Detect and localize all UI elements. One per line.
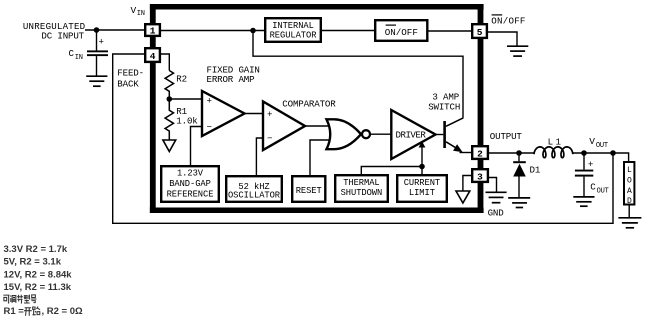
svg-text:INTERNAL: INTERNAL <box>272 21 314 31</box>
svg-text:4: 4 <box>150 51 156 62</box>
feedback wire pin4 loop <box>113 54 613 223</box>
on/off block <box>375 20 427 41</box>
svg-text:1.0k: 1.0k <box>176 115 198 126</box>
ground at COUT <box>573 197 594 206</box>
pin 2 box <box>472 146 488 159</box>
svg-text:R1 =: R1 = <box>4 306 25 317</box>
diode D1 <box>518 153 520 161</box>
wire on/off block to pin5 <box>429 30 472 32</box>
op-amp comparator <box>263 102 305 151</box>
wire pin3 right to ground <box>489 178 497 193</box>
load resistor box <box>624 162 634 205</box>
capacitor CIN <box>87 50 108 52</box>
wire regulator to on/off block <box>322 30 375 32</box>
inductor L1 <box>534 147 573 158</box>
wire error amp - to bandgap <box>191 127 203 166</box>
transistor Q1 base bar <box>443 121 446 148</box>
wire pin1 to internal regulator <box>161 30 265 32</box>
op-amp error amplifier <box>202 91 245 136</box>
svg-text:R2: R2 <box>176 74 187 85</box>
svg-text:L1: L1 <box>548 136 564 147</box>
IC border right bar pin5-pin2 <box>478 38 484 146</box>
wire reset to gate input <box>310 140 333 175</box>
svg-text:O: O <box>627 177 632 186</box>
node diode junction <box>516 150 522 156</box>
svg-text:C: C <box>69 48 75 59</box>
svg-text:1.23V: 1.23V <box>177 169 204 179</box>
svg-text:BACK: BACK <box>117 78 139 89</box>
wire gate to driver <box>370 133 391 135</box>
svg-text:L: L <box>627 166 632 175</box>
NOR output bubble <box>362 130 370 138</box>
svg-text:ON/OFF: ON/OFF <box>491 15 525 26</box>
ground at load <box>618 218 641 228</box>
svg-text:5V, R2 = 3.1k: 5V, R2 = 3.1k <box>4 257 62 268</box>
svg-text:CURRENT: CURRENT <box>404 178 440 188</box>
pin 5 box <box>472 24 487 38</box>
node feedback divider <box>167 96 173 102</box>
wire pin4 to R2 <box>161 54 169 71</box>
capacitor COUT <box>583 153 585 170</box>
wire input node down to Cin <box>96 30 98 51</box>
resistor R1 <box>165 99 173 140</box>
wire comparator - to oscillator <box>256 138 263 175</box>
svg-text:ON/OFF: ON/OFF <box>385 27 418 38</box>
svg-text:+: + <box>267 109 272 120</box>
ground at pin5 <box>507 46 528 56</box>
IC border right stub to pin5 <box>478 10 484 24</box>
wire pin5 to ground <box>488 32 517 46</box>
wire emitter to pin2 <box>460 152 472 154</box>
wire error amp out to comparator <box>245 113 264 115</box>
node vout junction <box>610 150 616 156</box>
svg-text:DC INPUT: DC INPUT <box>41 31 84 42</box>
wire comparator out to gate <box>305 125 333 127</box>
svg-text:−: − <box>207 122 212 133</box>
svg-text:OUTPUT: OUTPUT <box>490 131 523 142</box>
current limit block <box>397 175 447 202</box>
band-gap reference block <box>161 166 219 202</box>
svg-text:A: A <box>627 187 632 196</box>
svg-text:12V, R2 = 8.84k: 12V, R2 = 8.84k <box>4 269 73 280</box>
open arrow at pin3 <box>456 191 470 203</box>
wire thermal/current to driver arrow <box>361 147 422 176</box>
svg-text:REFERENCE: REFERENCE <box>167 189 214 199</box>
svg-text:IN: IN <box>75 54 83 62</box>
open arrow below R1 <box>163 140 176 152</box>
IC block thick border top <box>150 4 484 10</box>
svg-text:THERMAL: THERMAL <box>343 178 379 188</box>
svg-text:V: V <box>589 136 595 147</box>
pin 3 box <box>472 169 488 182</box>
IC border bottom <box>150 208 484 214</box>
node input junction <box>94 27 100 33</box>
node Vin rail junction <box>250 28 256 34</box>
svg-text:IN: IN <box>137 10 145 18</box>
svg-text:ERROR AMP: ERROR AMP <box>207 74 255 85</box>
svg-text:OSCILLATOR: OSCILLATOR <box>228 190 281 200</box>
svg-text:SWITCH: SWITCH <box>428 102 460 113</box>
IC border left bar below pin4 <box>150 62 156 208</box>
svg-text:−: − <box>267 133 272 144</box>
ground at D1 <box>508 198 530 208</box>
oscillator block <box>226 176 282 202</box>
svg-text:OUT: OUT <box>597 187 609 195</box>
svg-text:3.3V R2 = 1.7k: 3.3V R2 = 1.7k <box>4 244 68 255</box>
svg-text:C: C <box>590 181 596 192</box>
svg-text:BAND-GAP: BAND-GAP <box>169 179 211 189</box>
svg-text:D1: D1 <box>530 164 541 175</box>
svg-text:15V, R2 = 11.3k: 15V, R2 = 11.3k <box>4 282 72 293</box>
internal regulator block <box>265 18 321 42</box>
wire driver to transistor base <box>436 134 444 136</box>
svg-text:5: 5 <box>477 27 483 38</box>
NOR gate <box>327 119 362 149</box>
svg-text:SHUTDOWN: SHUTDOWN <box>341 188 383 198</box>
ground at Cin <box>86 76 107 86</box>
pin 1 box <box>145 24 160 36</box>
svg-text:COMPARATOR: COMPARATOR <box>282 98 336 109</box>
wire Vin rail down to collector <box>253 31 463 118</box>
svg-text:+: + <box>588 159 593 170</box>
svg-text:3: 3 <box>477 171 483 182</box>
svg-text:REGULATOR: REGULATOR <box>270 30 318 40</box>
reset block <box>292 176 325 202</box>
wire load to ground <box>628 205 630 218</box>
ground at pin3 <box>486 192 507 202</box>
svg-text:RESET: RESET <box>296 186 322 196</box>
svg-text:LIMIT: LIMIT <box>409 188 435 198</box>
svg-text:, R2 = 0Ω: , R2 = 0Ω <box>42 306 84 317</box>
svg-text:+: + <box>207 96 212 107</box>
transistor emitter with arrow <box>446 142 458 149</box>
IC border stub pin2-pin3 <box>478 159 484 169</box>
IC border left stub to pin 1 <box>150 10 156 24</box>
svg-text:V: V <box>131 5 137 16</box>
svg-text:OUT: OUT <box>596 142 608 150</box>
resistor R2 <box>165 71 173 100</box>
node cout junction <box>581 150 587 156</box>
svg-text:GND: GND <box>488 207 505 218</box>
wire unregulated input to pin1 <box>85 29 144 31</box>
transistor collector <box>446 118 463 127</box>
svg-text:FEED-: FEED- <box>117 68 144 79</box>
svg-text:1: 1 <box>150 26 156 37</box>
wire pin3 left to open arrow <box>463 176 471 192</box>
svg-text:2: 2 <box>477 148 483 159</box>
driver buffer <box>391 110 435 159</box>
output rail pin2 to load <box>489 153 629 162</box>
wire divider to error amp + <box>169 98 202 100</box>
svg-text:+: + <box>99 37 104 48</box>
caption line 5 chinese kejiaojie xinghao <box>3 295 36 303</box>
IC border stub pin1-pin4 <box>150 36 156 48</box>
svg-text:DRIVER: DRIVER <box>396 130 427 141</box>
IC border stub below pin3 <box>478 182 484 208</box>
thermal shutdown block <box>335 175 388 202</box>
pin 4 box <box>145 48 160 62</box>
